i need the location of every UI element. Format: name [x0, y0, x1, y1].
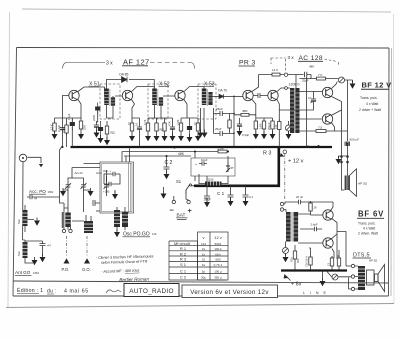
svg-text:1652: 1652: [48, 190, 54, 194]
svg-text:500 μF: 500 μF: [350, 138, 360, 142]
column res 2.2K: [179, 121, 182, 133]
cap 10uF inside: [199, 161, 207, 166]
bias resistor col: [309, 201, 312, 213]
svg-text:1k: 1k: [202, 253, 206, 257]
svg-text:3,3μF: 3,3μF: [242, 133, 249, 137]
res col 6v d: [337, 256, 340, 268]
battery: [174, 194, 189, 200]
svg-text:20 nF: 20 nF: [296, 195, 303, 199]
cap 500uF: [345, 142, 350, 146]
IF transformer T3: [202, 89, 213, 106]
ground 6v below bus: [322, 272, 324, 281]
svg-text:PR 3: PR 3: [239, 60, 256, 67]
wire Q4 base: [234, 95, 243, 97]
svg-text:22K: 22K: [83, 125, 87, 130]
transistor Q6: [322, 87, 332, 97]
svg-text:3 x: 3 x: [288, 55, 295, 60]
svg-text:12μF: 12μF: [67, 113, 71, 120]
column res 47b: [196, 121, 199, 133]
wire Q1 emitter down: [78, 100, 81, 119]
svg-text:1k: 1k: [202, 247, 206, 251]
svg-text:5T: 5T: [231, 166, 235, 170]
svg-text:202μF: 202μF: [267, 122, 271, 130]
svg-text:12 K: 12 K: [50, 124, 54, 130]
stage1 column resistor 22K: [79, 119, 82, 131]
transformer left mid2: [84, 221, 93, 233]
svg-text:25μF: 25μF: [215, 127, 222, 131]
transistor Q4: [243, 90, 253, 100]
PO pointer: [66, 236, 68, 256]
svg-text:5601: 5601: [215, 242, 222, 246]
svg-text:0,1: 0,1: [308, 96, 312, 100]
svg-text:+ 12 v: + 12 v: [288, 159, 304, 165]
svg-text:350 μ: 350 μ: [214, 276, 222, 280]
speaker 6v: [375, 274, 379, 282]
svg-text:μF: μF: [310, 100, 313, 104]
transistor Q2: [122, 90, 132, 100]
svg-text:129: 129: [152, 232, 157, 236]
terminals at DTS: [351, 264, 354, 267]
svg-text:BF 12 V: BF 12 V: [362, 81, 393, 90]
IF can X53 dashed: [198, 84, 216, 119]
column cap 0.1uF: [237, 120, 242, 130]
cap C1 b: [228, 186, 234, 201]
res col 6v a: [293, 249, 296, 261]
diode line top: [107, 80, 155, 89]
transistor Q9: [323, 238, 333, 248]
svg-text:R 3: R 3: [263, 151, 271, 157]
svg-text:S1: S1: [176, 179, 182, 184]
svg-text:+180: +180: [103, 190, 110, 194]
trimmer top wires: [68, 176, 107, 182]
svg-text:Version 6v et Version 12v: Version 6v et Version 12v: [190, 289, 269, 296]
svg-text:124: 124: [201, 242, 206, 246]
cap 2.4uF: [300, 227, 322, 231]
wire Q3 collector to T3: [184, 87, 204, 92]
sheet edge left: [8, 12, 10, 307]
svg-text:Bertier Roman: Bertier Roman: [119, 276, 149, 282]
selector terminal and dash-dot link: [283, 150, 287, 154]
svg-text:+ 6v: + 6v: [291, 282, 302, 288]
svg-text:5,6R: 5,6R: [259, 123, 263, 129]
wire Q1 base left: [63, 96, 69, 119]
ground C2: [164, 171, 170, 179]
svg-text:2 driver + Watt: 2 driver + Watt: [359, 108, 381, 112]
transistor Q5: [268, 90, 278, 100]
wire Q3 emitter down: [184, 100, 187, 119]
svg-text:S 1: S 1: [180, 262, 187, 267]
svg-text:2,4μF: 2,4μF: [311, 223, 318, 227]
stage2 top wire: [132, 117, 198, 119]
svg-text:Trans. puis.: Trans. puis.: [360, 96, 378, 100]
svg-text:Acc.R: Acc.R: [75, 171, 84, 175]
ground left of switch: [161, 191, 167, 199]
ground stage1 c: [78, 131, 84, 139]
column res d: [271, 119, 274, 131]
svg-text:48R: 48R: [242, 109, 248, 113]
svg-text:10μF: 10μF: [201, 158, 208, 162]
transformer wires to Q6 Q7: [300, 79, 323, 120]
stage1 wires: [55, 118, 82, 147]
osc coils below: [114, 210, 128, 227]
svg-text:1k: 1k: [202, 263, 206, 267]
svg-text:5,6K: 5,6K: [218, 147, 225, 151]
svg-text:0,1: 0,1: [249, 195, 253, 199]
cap +47: [25, 241, 46, 250]
pot top right circle: [339, 77, 345, 83]
wires left net: [72, 164, 107, 183]
stage1 column resistor 12K: [53, 121, 56, 133]
svg-text:1653: 1653: [33, 271, 39, 275]
svg-text:68 k: 68 k: [215, 253, 221, 257]
volume box: [191, 158, 235, 176]
driver transformer 6V: [286, 212, 298, 242]
cap 25uF agc: [214, 131, 235, 136]
coil ant GO: [23, 242, 28, 258]
sheet edge right: [393, 14, 396, 303]
svg-text:Osc. +: Osc. +: [103, 169, 112, 173]
wire stage1 to bus: [60, 134, 63, 198]
svg-text:140: 140: [274, 124, 278, 129]
svg-text:C10 50.4: C10 50.4: [305, 256, 309, 267]
stage1 cap 10nF dark: [70, 118, 75, 130]
coupling cap 25uF to Q5: [253, 93, 268, 98]
svg-text:R 3: R 3: [180, 257, 187, 262]
DTS5 transformer: [358, 266, 365, 290]
wire top cap connections: [295, 75, 297, 89]
svg-text:1208 b: 1208 b: [289, 83, 300, 87]
svg-text:680: 680: [215, 258, 220, 262]
junction dots: [61, 143, 348, 157]
thick 6v bus: [281, 269, 347, 271]
svg-text:C 1: C 1: [180, 269, 187, 274]
svg-text:G.O.: G.O.: [82, 267, 91, 272]
svg-text:Acc. PO: Acc. PO: [29, 189, 46, 194]
IF transformer T1: [104, 89, 115, 106]
T3 ground pair: [201, 108, 205, 132]
wire bundle into box: [122, 147, 130, 162]
Version box: [182, 285, 278, 298]
tiny value labels stage2: [127, 119, 197, 126]
svg-text:7 K: 7 K: [318, 73, 323, 77]
svg-text:44: 44: [34, 197, 38, 201]
svg-text:12 K: 12 K: [272, 68, 278, 72]
svg-text:4 x Watt: 4 x Watt: [366, 102, 378, 106]
wires into volume box: [195, 152, 207, 191]
pot 6v: [283, 248, 289, 254]
resistor R1: [105, 124, 108, 136]
svg-text:4,7K: 4,7K: [143, 119, 147, 125]
res 7K h: [311, 78, 338, 80]
label +12v: [280, 150, 304, 201]
IF can X52 dashed: [148, 84, 168, 119]
column res 4.7K: [146, 121, 149, 133]
wire Q4 collector up: [252, 75, 259, 92]
column cap: [137, 123, 142, 133]
pot 5T inside: [226, 162, 230, 172]
svg-text:HP 3Ω: HP 3Ω: [358, 182, 368, 186]
svg-text:−: −: [170, 206, 175, 215]
main bus thick: [71, 146, 333, 148]
res 7.5 h: [300, 77, 348, 147]
terminal: [284, 73, 287, 76]
column cap 2: [170, 123, 175, 133]
svg-text:Trans. puis.: Trans. puis.: [358, 222, 376, 226]
svg-text:5μ: 5μ: [202, 270, 206, 274]
antenna jack: [19, 154, 27, 162]
rail 3: [124, 155, 191, 157]
svg-text:Ant GO: Ant GO: [15, 270, 31, 275]
svg-text:+47: +47: [47, 244, 52, 248]
svg-text:2,2K: 2,2K: [176, 119, 180, 125]
svg-text:2200: 2200: [92, 114, 96, 121]
column res R2: [155, 121, 158, 133]
svg-text:4 mai 65: 4 mai 65: [64, 289, 89, 295]
cap C1 a: [204, 190, 210, 202]
column res a: [228, 118, 231, 130]
svg-text:AF 127: AF 127: [123, 58, 150, 67]
ground stage1 a: [52, 131, 58, 139]
svg-text:30μ: 30μ: [201, 276, 206, 280]
svg-text:C 2: C 2: [180, 275, 187, 280]
transformer wires: [298, 214, 323, 243]
res col 6v c: [330, 256, 333, 268]
Q8 Q9 output wires: [332, 218, 346, 266]
svg-text:0,7K 1: 0,7K 1: [214, 263, 223, 267]
svg-text:25μF: 25μF: [302, 79, 309, 83]
stage1 column cap 0.1uF: [60, 124, 65, 134]
small parts left of box: [93, 200, 100, 206]
wire T1 secondary to Q2 base: [113, 96, 122, 118]
svg-text:OA 70: OA 70: [218, 89, 227, 93]
T1 bottom column cap 2200: [95, 103, 100, 115]
wire Q2 collector to T2: [132, 87, 155, 92]
R3 bus staircase thick: [194, 148, 279, 186]
svg-text:2 driver. Watt: 2 driver. Watt: [358, 232, 378, 236]
AUTO_RADIO box: [124, 284, 179, 297]
wire Q5 collector to transformer: [277, 88, 290, 92]
stage1 column resistor 4.7K: [65, 123, 68, 135]
column res b: [254, 119, 257, 131]
column res c: [262, 119, 265, 131]
svg-text:v: v: [203, 235, 205, 240]
grounds trimmers: [63, 190, 68, 191]
svg-text:4 x Watt: 4 x Watt: [363, 227, 375, 231]
diode OA70 detector: [213, 95, 219, 97]
wire antenna right arrow: [28, 157, 42, 163]
column res 47: [130, 121, 133, 133]
svg-text:Édition : 1: Édition : 1: [17, 287, 43, 294]
wire Q5 emitter down: [277, 100, 279, 122]
svg-text:C 2: C 2: [165, 160, 173, 166]
svg-text:12 v: 12 v: [214, 235, 222, 240]
transistor Q7: [322, 114, 332, 124]
column cap 3 dark: [187, 122, 192, 134]
speaker HP 12V: [345, 176, 350, 191]
svg-text:R 1: R 1: [180, 246, 187, 251]
res col 6v b: [309, 255, 312, 267]
wire Q4 emitter down: [252, 100, 256, 119]
sheet edge top: [22, 9, 391, 12]
wire Q2 emitter down: [132, 100, 135, 105]
title block top line: [13, 281, 389, 283]
svg-text:+: +: [195, 163, 197, 167]
ground mid right: [339, 156, 348, 158]
GO pointer: [86, 236, 88, 256]
pot PR3 circle: [286, 125, 292, 131]
transistor Q1: [69, 90, 79, 100]
svg-text:HP 3Ω: HP 3Ω: [369, 259, 377, 263]
svg-text:DTS.5: DTS.5: [353, 253, 370, 259]
svg-text:+: +: [188, 206, 193, 215]
supply wire 12K: [259, 74, 285, 76]
osc box outline: [100, 162, 134, 213]
feedback resistor 48K: [234, 114, 256, 116]
wires trimmers to transformers: [23, 190, 107, 240]
svg-text:Tant: Tant: [17, 219, 21, 224]
wire to gnd arrow right: [345, 80, 353, 141]
svg-text:R1: R1: [111, 131, 115, 135]
svg-text:1156: 1156: [208, 178, 214, 182]
+6v label: [286, 276, 291, 281]
svg-text:4,7K: 4,7K: [61, 127, 65, 133]
svg-text:L I N E: L I N E: [303, 291, 328, 295]
signature scribble: [106, 290, 121, 293]
svg-text:10: 10: [202, 258, 206, 262]
svg-text:48K: 48K: [309, 64, 314, 68]
svg-text:7,5: 7,5: [318, 125, 323, 129]
resistor 5,6K on rail: [218, 150, 227, 153]
svg-text:100 k: 100 k: [214, 247, 222, 251]
svg-text:AUTO_RADIO: AUTO_RADIO: [129, 288, 173, 295]
transformer left mid: [62, 212, 64, 228]
svg-text:180μF: 180μF: [204, 198, 212, 202]
ground coil GO: [42, 250, 44, 256]
cap 25uF detector: [214, 108, 235, 133]
column res 47K: [163, 121, 166, 133]
sheet edge bottom: [6, 304, 394, 308]
transistor Q3: [175, 90, 185, 100]
wire down to speaker: [347, 144, 349, 177]
cap 0.1: [243, 186, 249, 201]
grounds under C1: [204, 199, 210, 207]
svg-text:47K: 47K: [168, 121, 172, 126]
svg-text:100 μ: 100 μ: [214, 270, 222, 274]
svg-text:R10: R10: [290, 257, 294, 262]
ground at BF12V: [350, 81, 356, 89]
svg-text:25μF: 25μF: [216, 107, 223, 111]
output node wires: [342, 144, 345, 190]
cap 0.1uF vertical: [311, 95, 316, 105]
svg-text:3 x: 3 x: [106, 61, 113, 67]
svg-text:OA 85: OA 85: [119, 73, 129, 77]
IF can X51 dashed: [100, 84, 120, 119]
wire T1 primary bottom down: [106, 105, 108, 118]
T1 bottom cap dark: [98, 123, 103, 135]
coil 1156 horizontal: [205, 182, 222, 186]
wire T2 secondary to Q3 base: [155, 96, 175, 118]
detector node column: [233, 96, 235, 147]
top right supply: cap 25uF: [288, 72, 311, 79]
wire antenna down: [22, 161, 24, 240]
svg-text:BF 6V: BF 6V: [358, 210, 384, 219]
svg-text:du :: du :: [47, 289, 56, 295]
lamp circle 6v: [332, 274, 338, 280]
svg-text:48K: 48K: [178, 152, 185, 156]
IF transformer T2: [152, 89, 163, 106]
svg-text:Tant: Tant: [17, 251, 21, 256]
svg-text:400: 400: [296, 258, 300, 263]
svg-text:C 1: C 1: [217, 191, 225, 196]
svg-text:P.O.: P.O.: [62, 267, 70, 272]
input terminals: [280, 202, 283, 205]
rail 2: [122, 151, 228, 153]
coil ant PO: [23, 210, 28, 226]
ground coil PO: [34, 218, 40, 226]
svg-text:0,1: 0,1: [135, 122, 139, 126]
cap below AccPO: [27, 195, 64, 208]
transistor Q8: [323, 210, 333, 220]
Q6 emitter/collector wires: [331, 82, 341, 144]
diode OA85: [122, 77, 128, 83]
cap 20nF: [297, 200, 334, 211]
wire Q1 collector to T1: [78, 87, 105, 96]
